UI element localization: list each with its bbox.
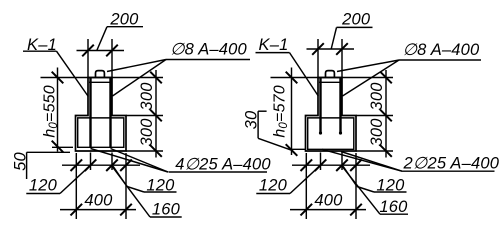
svg-text:300: 300 (368, 82, 386, 111)
svg-text:160: 160 (379, 198, 408, 216)
svg-text:120: 120 (259, 176, 288, 194)
svg-text:200: 200 (341, 11, 371, 29)
svg-text:160: 160 (152, 201, 181, 219)
svg-text:h0=550: h0=550 (42, 85, 61, 138)
svg-text:K–1: K–1 (259, 36, 289, 54)
svg-text:∅8 A–400: ∅8 A–400 (403, 41, 480, 59)
svg-text:300: 300 (368, 118, 386, 147)
svg-text:2∅25 A–400: 2∅25 A–400 (403, 155, 500, 173)
svg-text:120: 120 (29, 176, 58, 194)
svg-text:400: 400 (84, 191, 113, 209)
svg-text:400: 400 (314, 191, 343, 209)
svg-text:50: 50 (11, 152, 29, 171)
svg-text:∅8 A–400: ∅8 A–400 (170, 41, 247, 59)
svg-text:200: 200 (109, 11, 139, 29)
svg-text:4∅25 A–400: 4∅25 A–400 (175, 155, 271, 173)
svg-text:300: 300 (138, 118, 156, 147)
svg-text:h0=570: h0=570 (272, 85, 291, 138)
svg-text:300: 300 (138, 82, 156, 111)
svg-text:30: 30 (243, 110, 261, 129)
